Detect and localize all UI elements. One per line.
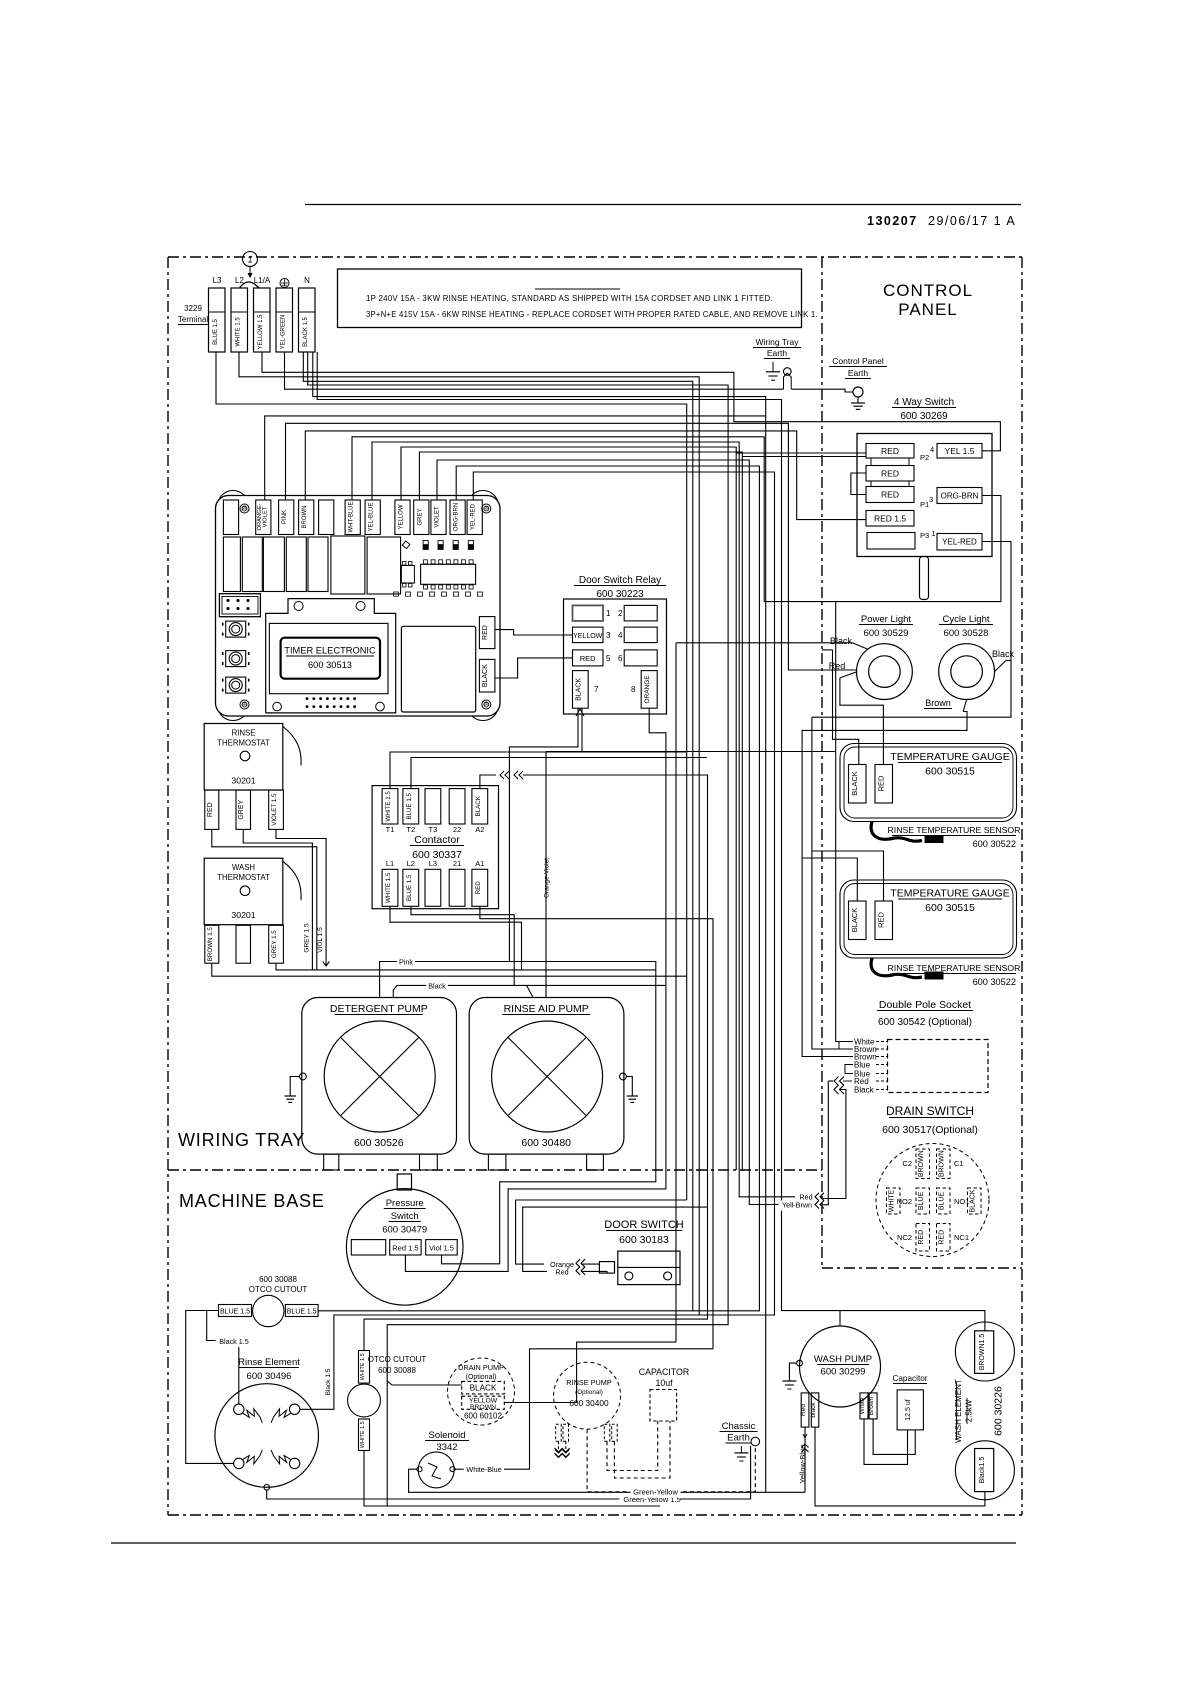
svg-text:RINSE PUMP: RINSE PUMP <box>566 1378 612 1387</box>
svg-text:Contactor: Contactor <box>414 834 460 846</box>
wire socket black feed <box>823 1090 846 1199</box>
wash element number <box>993 1386 1005 1436</box>
rinse element coils <box>243 1409 291 1464</box>
wire relem bottom <box>267 1446 751 1505</box>
relay term 2 <box>624 605 657 621</box>
temperature gauge 2 <box>840 880 1017 958</box>
svg-text:WHITE 1.5: WHITE 1.5 <box>385 791 392 822</box>
wire pump black <box>393 981 666 1271</box>
wire relay orange8 <box>649 708 666 985</box>
wire drainsw red label <box>799 1192 824 1202</box>
svg-text:BLACK: BLACK <box>475 795 482 816</box>
switch actuator <box>920 557 929 600</box>
svg-text:600 30183: 600 30183 <box>619 1234 669 1246</box>
wire blue term <box>216 352 687 1200</box>
display frame <box>266 599 396 713</box>
wire otco2 bottom <box>364 1451 660 1507</box>
wire washpump brown <box>873 1419 915 1455</box>
wire black d <box>317 352 985 1331</box>
wire yel-red switch <box>812 542 1011 718</box>
note box <box>338 269 818 328</box>
wire cycle black <box>812 717 884 1049</box>
svg-text:NO2: NO2 <box>897 1197 912 1206</box>
svg-text:T3: T3 <box>429 825 438 834</box>
svg-text:Switch: Switch <box>391 1211 419 1222</box>
svg-text:Blue: Blue <box>854 1060 871 1069</box>
wire wash stat grey <box>276 963 656 970</box>
svg-text:CAPACITOR: CAPACITOR <box>639 1367 690 1377</box>
svg-text:T2: T2 <box>406 825 415 834</box>
switch pin labels <box>920 445 936 540</box>
4 way switch label <box>892 397 956 422</box>
svg-text:GREY 1.5: GREY 1.5 <box>304 923 311 953</box>
svg-text:2.5kW: 2.5kW <box>965 1399 974 1422</box>
svg-text:6: 6 <box>618 654 623 663</box>
svg-text:VIOL 1.5: VIOL 1.5 <box>317 927 324 953</box>
pressure switch tab <box>397 1174 411 1190</box>
svg-text:12.5 uf: 12.5 uf <box>905 1399 912 1420</box>
svg-text:600 30088: 600 30088 <box>378 1366 416 1375</box>
svg-text:N: N <box>304 276 310 285</box>
svg-text:Door Switch Relay: Door Switch Relay <box>579 575 661 586</box>
svg-text:RED: RED <box>207 802 214 817</box>
svg-text:Black1.5: Black1.5 <box>979 1456 986 1483</box>
wire contactor a2 <box>364 771 708 1351</box>
svg-text:3342: 3342 <box>436 1442 457 1453</box>
wire cap10 right <box>614 1421 670 1478</box>
contactor box <box>372 786 498 909</box>
svg-text:Red 1.5: Red 1.5 <box>392 1244 418 1253</box>
yellow-blue label <box>798 1434 810 1485</box>
wire gauge1 black <box>822 650 859 765</box>
svg-text:DETERGENT PUMP: DETERGENT PUMP <box>330 1003 428 1015</box>
svg-text:VIOLET: VIOLET <box>435 506 441 528</box>
wire pcb org-brn <box>456 466 759 1311</box>
wire cap10 left <box>607 1421 658 1471</box>
svg-text:Pink: Pink <box>399 957 413 966</box>
terminal earth symbol <box>280 279 289 288</box>
rinse temp sensor 2 cable <box>871 958 943 979</box>
otco1 term right <box>285 1305 318 1317</box>
svg-text:VIOLET 1.5: VIOLET 1.5 <box>271 793 278 826</box>
door switch wire labels <box>550 1260 574 1277</box>
wire drain yb <box>504 1342 676 1402</box>
svg-text:3: 3 <box>606 631 611 640</box>
rinse pump chevrons <box>555 1448 570 1457</box>
switch links <box>851 458 909 495</box>
svg-text:MACHINE BASE: MACHINE BASE <box>179 1191 325 1211</box>
svg-text:GREY: GREY <box>238 799 245 819</box>
wire white term <box>239 352 699 1409</box>
label CONTROL PANEL <box>883 281 973 319</box>
svg-text:(Optional): (Optional) <box>575 1389 603 1396</box>
timer relays <box>223 536 400 594</box>
switch contact RED 1.5 <box>866 511 914 527</box>
svg-text:1P 240V 15A - 3KW RINSE HEATIN: 1P 240V 15A - 3KW RINSE HEATING, STANDAR… <box>366 294 773 303</box>
pressure switch term viol <box>426 1240 458 1255</box>
svg-text:YEL-BLUE: YEL-BLUE <box>369 502 375 531</box>
svg-text:600 30226: 600 30226 <box>993 1386 1005 1436</box>
svg-text:Earth: Earth <box>767 348 788 358</box>
svg-text:BROWN: BROWN <box>302 506 308 529</box>
wire earth run <box>285 352 854 392</box>
svg-text:Earth: Earth <box>727 1433 750 1444</box>
svg-text:RED: RED <box>580 654 596 663</box>
door switch body <box>618 1251 680 1285</box>
timer small pads <box>394 592 483 596</box>
svg-text:600 30517(Optional): 600 30517(Optional) <box>882 1124 978 1136</box>
svg-text:Solenoid: Solenoid <box>429 1430 466 1441</box>
svg-text:Brown: Brown <box>868 1396 875 1415</box>
timer smd parts <box>423 541 473 550</box>
pressure switch term blank <box>351 1240 385 1255</box>
svg-text:10uf: 10uf <box>655 1378 673 1388</box>
wire relay red <box>495 658 573 678</box>
svg-text:RED: RED <box>881 490 899 500</box>
svg-text:TEMPERATURE GAUGE: TEMPERATURE GAUGE <box>890 751 1009 763</box>
svg-text:600 30513: 600 30513 <box>308 660 352 670</box>
timer BLACK tab <box>479 659 495 692</box>
svg-text:P2: P2 <box>920 453 929 462</box>
svg-text:WASH: WASH <box>232 863 255 872</box>
wire pink <box>380 957 656 1264</box>
capacitor125 label <box>892 1374 927 1384</box>
double pole socket label <box>877 999 973 1028</box>
svg-text:YEL 1.5: YEL 1.5 <box>945 446 975 456</box>
svg-text:600 30480: 600 30480 <box>521 1137 571 1149</box>
timer header block <box>219 594 260 617</box>
svg-text:Black 1.5: Black 1.5 <box>325 1368 332 1395</box>
wash pump term brown <box>868 1393 877 1419</box>
svg-text:C1: C1 <box>954 1159 964 1168</box>
svg-text:BLUE 1.5: BLUE 1.5 <box>406 874 413 901</box>
wash element term black <box>975 1449 994 1492</box>
svg-text:3229: 3229 <box>184 304 202 313</box>
drain pump label <box>458 1363 504 1381</box>
svg-text:600 30522: 600 30522 <box>973 839 1016 849</box>
detergent pump earth <box>284 1073 306 1102</box>
relay term 4 <box>624 627 657 643</box>
switch contact YEL-RED <box>937 534 982 551</box>
svg-text:RINSE AID PUMP: RINSE AID PUMP <box>504 1003 589 1015</box>
svg-text:3: 3 <box>929 495 933 504</box>
drain term red nc1 <box>937 1224 970 1252</box>
rinse thermostat term grey <box>236 790 251 829</box>
svg-text:RED: RED <box>877 775 886 791</box>
svg-text:600 30522: 600 30522 <box>973 977 1016 987</box>
svg-text:GREY 1.5: GREY 1.5 <box>271 930 278 958</box>
contactor bottom terminals <box>382 859 488 906</box>
display dots <box>273 697 385 711</box>
svg-text:WASH ELEMENT: WASH ELEMENT <box>954 1379 963 1443</box>
svg-text:29/06/17 1 A: 29/06/17 1 A <box>928 214 1016 228</box>
wire solenoid left <box>409 1469 766 1492</box>
solenoid body <box>417 1452 455 1488</box>
timer pcb corner ears <box>218 491 499 721</box>
drain pump term yellow-brown <box>462 1396 505 1411</box>
svg-text:4: 4 <box>930 445 934 454</box>
wire contactor l1 <box>390 906 522 970</box>
svg-text:ORANGE: ORANGE <box>644 675 651 704</box>
svg-text:Orange-Violet: Orange-Violet <box>544 858 551 898</box>
drain switch circle <box>876 1144 989 1257</box>
solenoid wire label <box>464 1465 504 1474</box>
svg-text:RED: RED <box>475 881 482 895</box>
wire drain black down <box>386 1381 388 1506</box>
svg-text:NC2: NC2 <box>897 1233 912 1242</box>
svg-text:DRAIN SWITCH: DRAIN SWITCH <box>886 1104 974 1118</box>
wash thermostat term grey <box>269 925 284 963</box>
door switch relay box <box>564 599 667 714</box>
switch contact YEL 1.5 <box>937 444 982 459</box>
rinse pump circle <box>554 1362 621 1429</box>
svg-text:130207: 130207 <box>867 214 918 228</box>
door switch relay label <box>574 575 666 600</box>
svg-text:OTCO CUTOUT: OTCO CUTOUT <box>249 1285 308 1294</box>
relay term black <box>573 671 589 709</box>
drain term blue b <box>937 1188 970 1214</box>
socket bracket 1 <box>839 1042 853 1050</box>
wire contactor t2 <box>411 758 707 789</box>
svg-text:Red: Red <box>800 1404 807 1416</box>
rinse element body <box>215 1384 319 1488</box>
capacitor10 body <box>650 1390 677 1422</box>
svg-text:C2: C2 <box>902 1159 912 1168</box>
label red pl <box>829 661 846 671</box>
control panel earth <box>851 387 865 409</box>
pressure switch label <box>382 1198 427 1236</box>
svg-text:RED: RED <box>881 469 899 479</box>
timer button 2 <box>223 651 249 667</box>
rinse element terminals <box>234 1404 300 1490</box>
wire power red diag <box>840 672 857 678</box>
door switch chevrons <box>576 1259 585 1275</box>
page bottom rule <box>111 1542 1016 1544</box>
svg-text:Black: Black <box>830 636 853 646</box>
svg-text:WHITE 1.5: WHITE 1.5 <box>236 317 242 347</box>
drain switch label <box>882 1104 978 1136</box>
drain term brown c2 <box>902 1149 929 1179</box>
detergent pump <box>302 998 457 1155</box>
rinse pump terms <box>556 1424 618 1441</box>
wash pump body <box>800 1326 881 1407</box>
wire door orange <box>516 1200 687 1264</box>
switch contact ORG-BRN <box>937 488 982 504</box>
wire drainsw yellbrwn label <box>779 1200 824 1210</box>
chassis earth label <box>720 1421 758 1444</box>
svg-text:BLUE 1.5: BLUE 1.5 <box>220 1308 250 1315</box>
wire rinse pump bottom gy <box>587 1429 755 1497</box>
svg-text:GREY: GREY <box>417 508 423 525</box>
display lcd <box>281 638 380 679</box>
temperature gauge 1 <box>840 744 1017 822</box>
svg-text:5: 5 <box>606 654 611 663</box>
drain pump term black <box>462 1381 505 1394</box>
wiring tray earth terminal <box>784 368 792 389</box>
svg-text:T1: T1 <box>386 825 395 834</box>
svg-text:WHITE 1.5: WHITE 1.5 <box>385 872 392 903</box>
rinse aid pump <box>469 998 624 1155</box>
svg-text:Wiring Tray: Wiring Tray <box>756 337 800 347</box>
rinse thermostat term red <box>205 790 219 829</box>
socket bracket 2 <box>845 1065 853 1074</box>
svg-text:BLUE 1.5: BLUE 1.5 <box>406 792 413 819</box>
socket red chevrons <box>834 1077 844 1086</box>
rinse thermostat term violet <box>269 790 284 829</box>
wire black15 vert label <box>325 1368 332 1395</box>
svg-text:TEMPERATURE GAUGE: TEMPERATURE GAUGE <box>890 888 1009 900</box>
wire contactor a1 <box>480 906 713 1349</box>
svg-text:WHITE 1.5: WHITE 1.5 <box>360 1353 366 1380</box>
wash thermostat term brown <box>205 925 219 963</box>
wire wash stat brown <box>212 963 687 976</box>
tray-base divider <box>168 1169 822 1171</box>
svg-text:2: 2 <box>618 609 623 618</box>
rinse aid pump feet <box>488 1154 603 1170</box>
timer right relay <box>401 626 475 712</box>
link arc <box>240 282 260 288</box>
relay pin numbers <box>594 609 636 694</box>
svg-text:VIOLET: VIOLET <box>263 506 269 527</box>
svg-text:L3: L3 <box>213 276 222 285</box>
svg-text:BLUE 1.5: BLUE 1.5 <box>213 318 219 344</box>
wire black15 run <box>207 1311 253 1405</box>
otco2 term bottom <box>359 1419 370 1451</box>
wire power red down <box>840 678 884 765</box>
wire pcb yel-red <box>473 472 774 1315</box>
svg-text:BROWN1.5: BROWN1.5 <box>979 1334 986 1371</box>
drain pump circle <box>448 1358 515 1425</box>
drain term blue a <box>897 1188 930 1214</box>
svg-text:L3: L3 <box>429 859 437 868</box>
svg-text:OTCO CUTOUT: OTCO CUTOUT <box>368 1355 427 1364</box>
wire relay black7 <box>509 708 835 961</box>
contactor top terminals <box>382 789 488 834</box>
wire pcb grey <box>419 452 866 1170</box>
svg-text:RED: RED <box>938 1230 945 1245</box>
cycle light label <box>939 614 993 639</box>
switch contact RED P2b <box>866 466 914 482</box>
switch contact P3 blank <box>867 533 915 550</box>
svg-text:600 30526: 600 30526 <box>354 1137 404 1149</box>
wire door red <box>523 1207 707 1273</box>
switch contact RED P2a <box>866 444 914 459</box>
timer RED tab <box>479 617 495 649</box>
svg-text:WHITE: WHITE <box>888 1189 895 1212</box>
svg-text:1: 1 <box>247 255 252 265</box>
timer pcb outline <box>216 496 501 717</box>
svg-text:RINSE TEMPERATURE SENSOR: RINSE TEMPERATURE SENSOR <box>888 963 1021 973</box>
svg-text:CONTROL: CONTROL <box>883 281 973 300</box>
contactor label <box>410 834 464 861</box>
otco2 label <box>368 1355 427 1375</box>
wire solenoid right <box>455 1349 713 1475</box>
drain term brown c1 <box>937 1149 964 1179</box>
svg-text:BLUE: BLUE <box>918 1192 925 1211</box>
svg-text:Black 1.5: Black 1.5 <box>219 1337 249 1346</box>
wash pump term white <box>859 1393 868 1419</box>
4 way switch box <box>857 434 992 557</box>
svg-text:black: black <box>810 1402 817 1418</box>
socket black chevrons <box>834 1085 844 1094</box>
svg-text:Cycle Light: Cycle Light <box>943 614 990 625</box>
timer pcb screws <box>240 504 491 709</box>
svg-text:600 30223: 600 30223 <box>596 589 644 600</box>
svg-text:PINK: PINK <box>282 510 288 524</box>
svg-text:Brown: Brown <box>925 698 951 708</box>
drain term white <box>887 1188 901 1214</box>
wire washpump red <box>804 1427 806 1492</box>
wire black b <box>308 352 728 1385</box>
svg-text:YEL-GREEN: YEL-GREEN <box>281 315 287 350</box>
wire cycle brown <box>802 700 967 1057</box>
cycle light <box>939 644 995 700</box>
svg-text:600 30269: 600 30269 <box>900 411 948 422</box>
wash pump earth <box>782 1360 802 1389</box>
svg-text:600 30515: 600 30515 <box>925 902 975 914</box>
wire orgbrn socket <box>836 602 845 1042</box>
power light label <box>859 614 913 639</box>
wire pcb wht-blue <box>352 437 1001 602</box>
svg-text:WIRING TRAY: WIRING TRAY <box>178 1130 305 1150</box>
rinse pump label <box>566 1378 612 1408</box>
wash element term brown <box>975 1331 994 1374</box>
wire relay yellow <box>495 630 573 635</box>
svg-text:Earth: Earth <box>848 368 869 378</box>
wiring tray earth symbol <box>766 362 780 380</box>
svg-text:White: White <box>859 1397 866 1414</box>
svg-text:600 30542 (Optional): 600 30542 (Optional) <box>878 1017 972 1028</box>
wiring tray earth label <box>753 337 801 359</box>
svg-text:Capacitor: Capacitor <box>892 1374 927 1383</box>
door switch label <box>604 1219 683 1246</box>
wire contactor l2 <box>411 906 533 997</box>
svg-text:BLACK: BLACK <box>575 678 582 701</box>
svg-text:BLACK: BLACK <box>850 908 859 933</box>
svg-text:7: 7 <box>594 685 599 694</box>
svg-text:30201: 30201 <box>231 776 255 786</box>
timer button 1 <box>223 621 249 637</box>
wire pcb pink <box>286 423 857 670</box>
label black cl <box>992 649 1015 659</box>
timer diamond <box>402 541 410 549</box>
svg-text:Viol 1.5: Viol 1.5 <box>429 1244 454 1253</box>
svg-text:BLACK: BLACK <box>850 771 859 796</box>
svg-text:ORG-BRN: ORG-BRN <box>454 503 460 531</box>
control panel earth label <box>829 356 887 379</box>
wash element bottom circle <box>955 1441 1014 1500</box>
svg-text:Green-Yellow: Green-Yellow <box>633 1488 678 1497</box>
detergent pump feet <box>324 1154 438 1170</box>
otco2 body <box>348 1384 381 1417</box>
svg-text:BROWN: BROWN <box>470 1404 496 1411</box>
otco1 label <box>249 1275 308 1294</box>
label WIRING TRAY <box>178 1130 305 1150</box>
svg-text:600 30515: 600 30515 <box>925 766 975 778</box>
rinse aid pump earth <box>620 1073 639 1102</box>
svg-text:Red: Red <box>555 1268 568 1277</box>
svg-text:Black: Black <box>854 1085 875 1094</box>
svg-text:Chassic: Chassic <box>722 1421 756 1432</box>
rinse temp sensor 2 label <box>888 963 1021 987</box>
wash pump label <box>814 1354 872 1378</box>
page top rule <box>305 204 1021 206</box>
svg-text:RED 1.5: RED 1.5 <box>874 514 906 524</box>
relay term 1 <box>573 605 604 621</box>
svg-text:RED: RED <box>877 912 886 928</box>
svg-text:L1/A: L1/A <box>254 276 271 285</box>
svg-text:L1: L1 <box>386 859 394 868</box>
